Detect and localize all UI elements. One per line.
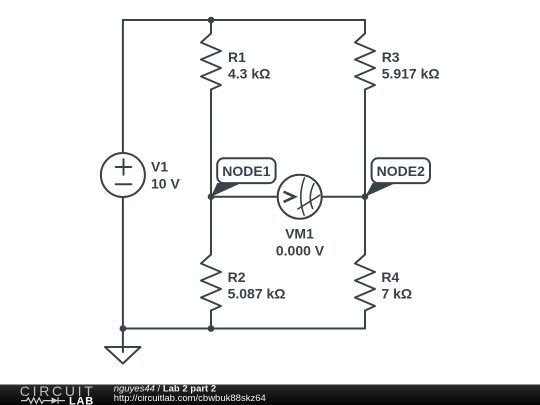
wire middle branch (NODE1 to R2) xyxy=(210,197,212,255)
callout tail NODE2 xyxy=(365,183,395,197)
svg-text:0.000 V: 0.000 V xyxy=(276,242,325,258)
node dot top junction xyxy=(208,17,215,24)
svg-text:R3: R3 xyxy=(382,49,400,65)
wire bottom rail xyxy=(123,328,365,330)
node ground junction xyxy=(120,325,127,332)
svg-text:http://circuitlab.com/cbwbuk88: http://circuitlab.com/cbwbuk88skz64 xyxy=(114,393,266,404)
svg-text:5.087 kΩ: 5.087 kΩ xyxy=(228,285,286,301)
wire left branch lower (V1 to bottom rail) xyxy=(122,197,124,329)
resistor R2 xyxy=(201,255,221,311)
node NODE1 label box xyxy=(217,158,275,183)
svg-text:R4: R4 xyxy=(381,269,399,285)
wire right branch (NODE2 to R4) xyxy=(364,197,366,255)
voltmeter VM1 polarity mark xyxy=(284,192,295,202)
wire middle branch bottom stub xyxy=(210,311,212,329)
resistor R4 xyxy=(355,255,375,311)
wire middle branch top stub xyxy=(210,20,212,34)
svg-text:V1: V1 xyxy=(151,159,168,175)
callout tail NODE1 xyxy=(211,183,241,197)
ground xyxy=(122,329,124,353)
wire right branch bottom stub xyxy=(364,311,366,329)
node bottom junction xyxy=(208,325,215,332)
svg-text:R1: R1 xyxy=(228,49,246,65)
svg-text:5.917 kΩ: 5.917 kΩ xyxy=(382,66,440,82)
wire middle branch (R1 to NODE1) xyxy=(210,90,212,197)
node A NODE1 junction xyxy=(208,193,215,200)
node NODE2 label box xyxy=(372,158,430,183)
wire right branch (R3 to NODE2) xyxy=(364,90,366,197)
voltmeter VM1 xyxy=(278,175,322,219)
svg-text:LAB: LAB xyxy=(69,396,94,405)
resistor R1 xyxy=(201,34,221,90)
svg-text:10 V: 10 V xyxy=(151,175,180,191)
resistor R3 xyxy=(355,34,375,90)
svg-text:7 kΩ: 7 kΩ xyxy=(381,285,412,301)
svg-text:NODE2: NODE2 xyxy=(377,163,425,179)
svg-text:R2: R2 xyxy=(228,269,246,285)
wire NODE1 to voltmeter xyxy=(211,196,278,198)
svg-text:NODE1: NODE1 xyxy=(222,163,270,179)
wire voltmeter to NODE2 xyxy=(322,196,365,198)
wire left branch upper (top rail to V1) xyxy=(122,20,124,153)
voltage source V1 xyxy=(101,153,145,197)
wire top rail xyxy=(123,19,365,21)
footer bar xyxy=(0,385,540,405)
svg-text:VM1: VM1 xyxy=(285,226,314,242)
logo resistor-diode line xyxy=(21,397,65,403)
node B NODE2 junction xyxy=(362,193,369,200)
wire right branch top stub xyxy=(364,20,366,34)
svg-text:4.3 kΩ: 4.3 kΩ xyxy=(228,66,270,82)
